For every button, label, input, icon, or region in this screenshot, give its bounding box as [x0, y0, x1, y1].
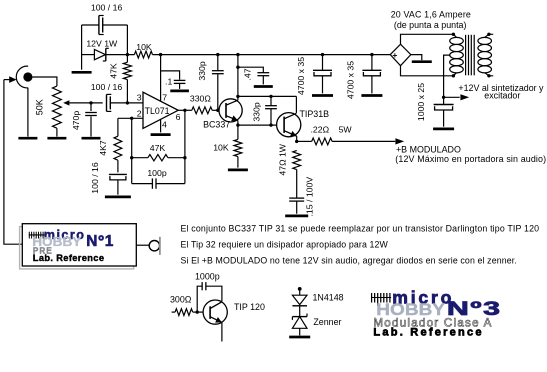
- svg-text:Lab. Reference: Lab. Reference: [373, 327, 483, 339]
- svg-text:Si El +B MODULADO no tene 12V: Si El +B MODULADO no tene 12V sin audio,…: [181, 255, 517, 265]
- svg-text:2: 2: [137, 108, 142, 118]
- svg-text:(12V Máximo en portadora sin a: (12V Máximo en portadora sin audio): [395, 154, 546, 164]
- svg-text:BC337: BC337: [203, 119, 230, 129]
- svg-text:100 / 16: 100 / 16: [90, 162, 100, 194]
- svg-text:TL071: TL071: [145, 106, 170, 116]
- svg-text:+B MODULADO: +B MODULADO: [396, 144, 461, 154]
- svg-text:330p: 330p: [197, 61, 207, 80]
- svg-text:4700 x 35: 4700 x 35: [296, 57, 306, 95]
- svg-text:Zenner: Zenner: [313, 317, 341, 327]
- svg-text:1000 x 25: 1000 x 25: [416, 83, 426, 121]
- svg-text:El conjunto BC337 TIP 31 se pu: El conjunto BC337 TIP 31 se puede reempl…: [181, 223, 540, 233]
- svg-text:470p: 470p: [71, 111, 81, 130]
- svg-text:4: 4: [162, 119, 167, 129]
- svg-text:7: 7: [162, 92, 167, 102]
- svg-text:TIP 120: TIP 120: [234, 302, 265, 312]
- svg-text:excitador: excitador: [484, 90, 520, 100]
- svg-text:El Tip 32 requiere un disipado: El Tip 32 requiere un disipador apropiad…: [181, 240, 389, 250]
- svg-text:300Ω: 300Ω: [170, 294, 192, 304]
- svg-text:1N4148: 1N4148: [313, 293, 344, 303]
- svg-text:6: 6: [176, 112, 181, 122]
- svg-text:100 / 16: 100 / 16: [91, 3, 123, 13]
- svg-text:47Ω 1W: 47Ω 1W: [277, 143, 287, 175]
- svg-text:4K7: 4K7: [98, 140, 108, 156]
- svg-text:.15 / 100V: .15 / 100V: [304, 177, 314, 217]
- svg-text:50K: 50K: [35, 99, 45, 115]
- svg-text:20 VAC 1,6 Ampere: 20 VAC 1,6 Ampere: [391, 10, 471, 20]
- svg-text:330p: 330p: [251, 102, 261, 121]
- svg-text:1000p: 1000p: [195, 272, 220, 282]
- svg-text:47K: 47K: [108, 63, 118, 79]
- svg-text:330Ω: 330Ω: [190, 93, 211, 103]
- svg-text:(de punta a punta): (de punta a punta): [394, 20, 467, 30]
- svg-text:10K: 10K: [213, 142, 229, 152]
- svg-text:3: 3: [137, 93, 142, 103]
- svg-text:100 / 16: 100 / 16: [91, 82, 123, 92]
- svg-text:+: +: [392, 50, 397, 60]
- svg-text:12V 1W: 12V 1W: [86, 38, 118, 48]
- svg-text:.22Ω: .22Ω: [311, 124, 330, 134]
- svg-text:.1: .1: [165, 77, 172, 87]
- svg-text:.47: .47: [243, 68, 253, 80]
- svg-text:47K: 47K: [150, 143, 166, 153]
- svg-text:5W: 5W: [339, 124, 353, 134]
- svg-text:TIP31B: TIP31B: [300, 109, 330, 119]
- svg-text:Nº1: Nº1: [86, 233, 114, 250]
- svg-text:4700 x 35: 4700 x 35: [345, 61, 355, 99]
- svg-text:10K: 10K: [136, 42, 152, 52]
- svg-text:Lab. Reference: Lab. Reference: [33, 253, 105, 263]
- svg-text:100p: 100p: [147, 168, 166, 178]
